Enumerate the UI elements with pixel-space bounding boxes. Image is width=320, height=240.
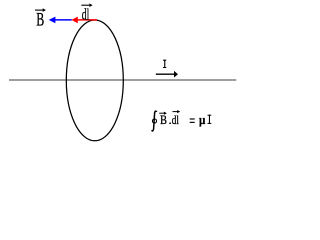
dl element arrow (red, pointing left) xyxy=(71,17,97,24)
formula B vector xyxy=(159,112,167,127)
label I (current) xyxy=(163,60,166,68)
current direction arrow xyxy=(156,71,178,78)
equals sign xyxy=(190,118,195,123)
svg-text:μ: μ xyxy=(199,112,206,127)
label B (vector) xyxy=(35,8,46,30)
formula I xyxy=(208,115,212,124)
svg-text:B: B xyxy=(160,112,167,127)
B field arrow (blue, pointing left) xyxy=(49,17,72,24)
svg-text:B: B xyxy=(36,10,44,31)
Amperian loop (ellipse) xyxy=(66,20,123,141)
formula dl vector xyxy=(172,110,181,127)
svg-text:dl: dl xyxy=(172,112,179,127)
label dl (vector) xyxy=(81,3,92,23)
wire (current-carrying conductor) xyxy=(9,79,236,81)
closed integral sign xyxy=(152,111,157,131)
svg-text:dl: dl xyxy=(82,7,90,24)
